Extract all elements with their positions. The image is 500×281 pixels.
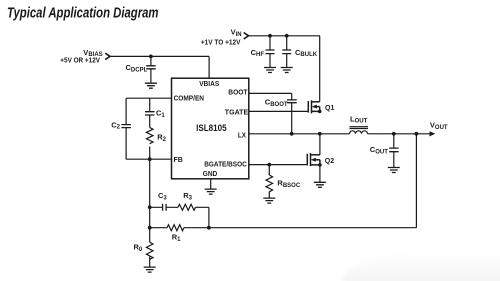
wire VOUT feedback right: [415, 134, 417, 228]
resistor R2 zigzag: [146, 128, 153, 144]
ground R0: [144, 267, 156, 272]
output arrow VOUT: [430, 131, 436, 136]
svg-text:ISL8105: ISL8105: [196, 123, 227, 133]
svg-text:R0: R0: [134, 243, 143, 253]
svg-text:R1: R1: [172, 233, 181, 243]
IC U1 ISL8105 box: [172, 78, 249, 179]
svg-text:VOUT: VOUT: [430, 121, 448, 131]
wire R0 stem: [149, 257, 151, 267]
svg-text:COMP/EN: COMP/EN: [174, 95, 204, 102]
capacitor C_HF plates: [266, 50, 275, 54]
wire C_DCPL stem: [150, 56, 152, 83]
corner watermark blob: [342, 251, 500, 281]
svg-text:CBOOT: CBOOT: [265, 98, 288, 108]
wire COMP/EN: [126, 97, 171, 99]
svg-text:+1V TO +12V: +1V TO +12V: [201, 40, 241, 47]
svg-text:LX: LX: [238, 133, 246, 140]
svg-text:CHF: CHF: [251, 48, 265, 58]
wire GND pin stem: [210, 179, 212, 189]
node dot VOUT/C_OUT: [392, 132, 396, 136]
wire FB: [126, 158, 171, 160]
capacitor C2 plates: [121, 125, 130, 128]
wire bottom feedback: [150, 227, 417, 229]
input arrow VIN: [244, 33, 249, 39]
svg-text:VBIAS: VBIAS: [199, 81, 219, 88]
svg-text:CDCPL: CDCPL: [126, 63, 148, 73]
node dot FB junction: [148, 157, 152, 161]
ground C_OUT: [388, 168, 400, 173]
svg-text:C3: C3: [158, 191, 167, 201]
svg-text:GND: GND: [203, 171, 218, 178]
svg-text:LOUT: LOUT: [350, 114, 368, 124]
wire C1-R2 branch: [149, 98, 151, 159]
svg-text:TGATE: TGATE: [225, 110, 249, 117]
node dot VOUT/feedback: [415, 132, 419, 136]
inductor L_OUT: [350, 127, 369, 134]
transistor Q1: [308, 100, 321, 113]
svg-text:COUT: COUT: [370, 145, 388, 155]
wire C_HF stem: [269, 36, 271, 67]
wire VIN rail: [249, 36, 321, 102]
svg-text:R3: R3: [183, 191, 192, 201]
wire TGATE: [249, 110, 308, 112]
svg-text:FB: FB: [174, 157, 183, 164]
resistor R_BSOC zigzag: [266, 175, 273, 192]
capacitor C_DCPL plates: [146, 66, 156, 69]
wire C_BULK stem: [286, 36, 288, 67]
svg-text:BGATE/BSOC: BGATE/BSOC: [204, 161, 247, 168]
ground C_BULK: [281, 68, 293, 73]
ground GND pin: [205, 189, 217, 194]
svg-text:RBSOC: RBSOC: [277, 179, 300, 189]
node dot LX/Q1-Q2: [318, 132, 322, 136]
ground Q2 source: [314, 182, 326, 187]
node dot VIN/C_BULK: [285, 34, 289, 38]
wire LOUT to VOUT: [368, 133, 430, 135]
node dot R1/R3 right: [207, 226, 211, 230]
wire Q2 drain up: [319, 134, 321, 155]
wire BGATE/BSOC: [249, 164, 307, 166]
svg-text:Typical Application Diagram: Typical Application Diagram: [7, 6, 159, 22]
capacitor C_OUT plates: [389, 148, 399, 152]
resistor R3 zigzag: [178, 204, 195, 210]
capacitor C3 plates: [163, 204, 167, 211]
svg-text:R2: R2: [157, 132, 166, 142]
wire R_BSOC stem: [268, 165, 270, 198]
svg-text:BOOT: BOOT: [228, 89, 248, 96]
resistor R1 zigzag: [167, 225, 184, 231]
node dot C3 branch: [148, 205, 152, 209]
wire C3-R3 branch: [150, 207, 209, 227]
wire LX: [249, 133, 350, 135]
node dot LX/C_BOOT: [290, 132, 294, 136]
capacitor C_BOOT plates: [287, 100, 297, 103]
ground C_DCPL: [145, 83, 157, 88]
wire C_OUT stem: [393, 134, 395, 167]
svg-text:Q2: Q2: [325, 158, 334, 165]
svg-text:C2: C2: [111, 120, 120, 130]
svg-text:VIN: VIN: [231, 28, 242, 38]
svg-text:+5V OR +12V: +5V OR +12V: [60, 57, 100, 64]
wire C2 branch: [125, 98, 127, 159]
ground C_HF: [264, 68, 276, 73]
wire Q2 source down: [319, 165, 321, 182]
wire BOOT: [249, 93, 292, 100]
wire C_BOOT to LX: [291, 103, 293, 134]
node dot VBIAS/C_DCPL: [149, 55, 153, 59]
svg-text:C1: C1: [156, 108, 165, 118]
node dot BGATE/R_BSOC: [267, 163, 271, 167]
input arrow VBIAS: [105, 53, 110, 59]
capacitor C1 plates: [145, 112, 155, 115]
wire FB down line: [149, 159, 151, 242]
resistor R0 zigzag: [146, 242, 153, 259]
wire VBIAS rail: [110, 56, 209, 78]
node dot VIN/C_HF: [268, 34, 272, 38]
node dot R1 left: [148, 226, 152, 230]
ground R_BSOC: [263, 198, 275, 203]
svg-text:CBULK: CBULK: [295, 48, 318, 58]
transistor Q2: [307, 153, 321, 167]
capacitor C_BULK plates: [282, 50, 291, 54]
svg-text:Q1: Q1: [325, 105, 334, 112]
